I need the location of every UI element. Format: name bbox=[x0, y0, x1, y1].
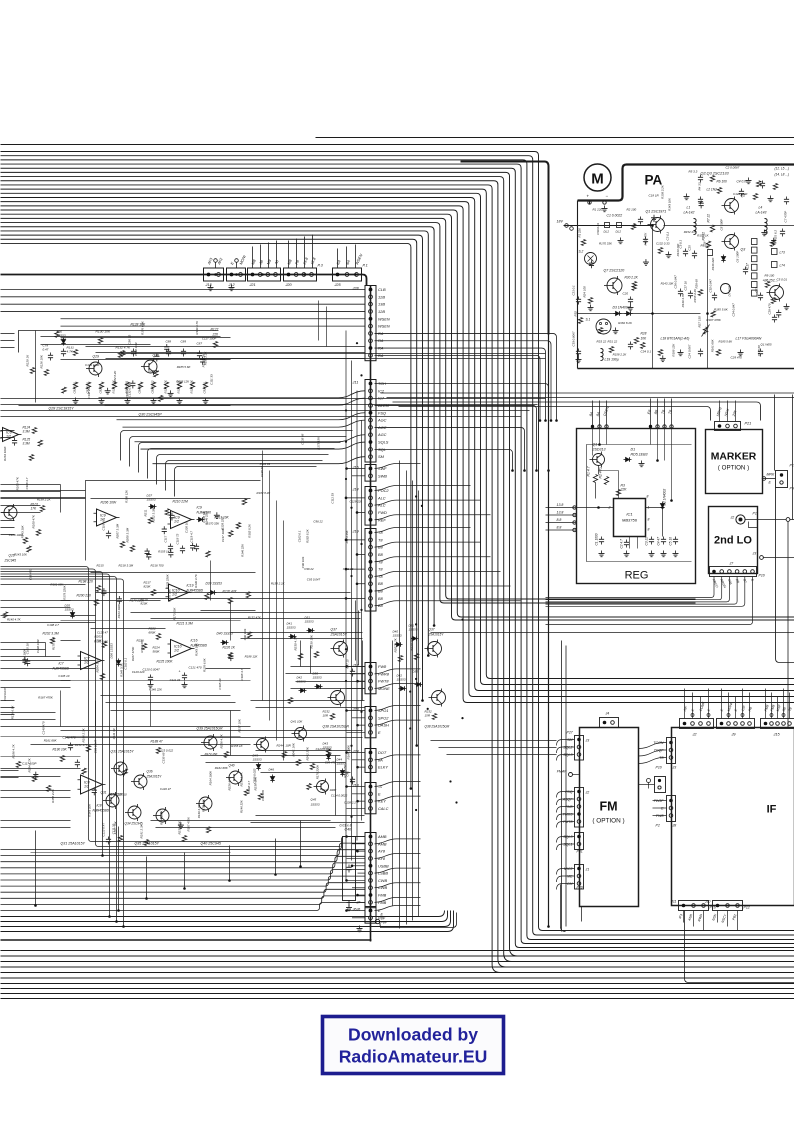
connector J3/P10 bbox=[667, 738, 676, 764]
wire stub bbox=[708, 689, 710, 719]
svg-text:P9: P9 bbox=[790, 487, 794, 491]
svg-text:R143 10K: R143 10K bbox=[676, 242, 680, 256]
wire bus top 18 bbox=[1, 223, 696, 603]
svg-text:WSEN: WSEN bbox=[378, 324, 390, 329]
svg-text:R161 68K: R161 68K bbox=[710, 338, 714, 352]
svg-text:R188 12K: R188 12K bbox=[124, 489, 128, 503]
svg-text:R188 12K: R188 12K bbox=[245, 654, 259, 658]
wire band L3 bbox=[157, 455, 329, 485]
wire stub left bbox=[1, 770, 19, 772]
svg-text:Q33 25A1015Y: Q33 25A1015Y bbox=[111, 750, 135, 754]
svg-text:AY8: AY8 bbox=[377, 849, 386, 854]
wire stub bbox=[268, 243, 270, 269]
svg-text:E: E bbox=[378, 791, 381, 796]
svg-text:R239 10K: R239 10K bbox=[310, 634, 314, 648]
svg-text:Q39 25A1015GR: Q39 25A1015GR bbox=[197, 727, 224, 731]
svg-text:R24 100: R24 100 bbox=[583, 286, 587, 298]
wire link bbox=[111, 710, 241, 712]
resistor bbox=[29, 455, 33, 461]
diode D7 W05 bbox=[721, 284, 731, 294]
wire stub bbox=[347, 687, 366, 689]
wire riser bbox=[392, 641, 394, 906]
wire feed bbox=[375, 348, 546, 420]
resistor bbox=[206, 827, 210, 833]
svg-text:NJM4558D: NJM4558D bbox=[93, 809, 110, 813]
svg-text:( OPTION ): ( OPTION ) bbox=[592, 818, 624, 825]
wire link bbox=[1, 668, 96, 670]
wire stub bbox=[546, 577, 745, 607]
wire bbox=[639, 743, 667, 749]
wire strip feeder bbox=[351, 361, 353, 861]
svg-text:R173 15K: R173 15K bbox=[343, 764, 347, 778]
wire riser bbox=[355, 601, 357, 661]
svg-text:R210 22M: R210 22M bbox=[173, 500, 188, 504]
wire stub left bbox=[1, 484, 61, 486]
svg-text:R164 100K: R164 100K bbox=[117, 603, 121, 619]
junction bbox=[350, 780, 352, 782]
svg-text:R140 4.7K: R140 4.7K bbox=[197, 803, 201, 818]
capacitor bbox=[76, 759, 78, 762]
svg-text:R226 47K: R226 47K bbox=[228, 776, 232, 790]
wire feed bbox=[375, 853, 421, 858]
ground bbox=[348, 905, 350, 908]
svg-text:J23: J23 bbox=[352, 708, 360, 712]
svg-text:R4 33: R4 33 bbox=[698, 182, 702, 190]
wire PA inner rail bbox=[577, 201, 579, 369]
svg-text:R176 6.8K: R176 6.8K bbox=[10, 704, 14, 719]
wire cluster link bbox=[91, 572, 256, 574]
svg-text:C135 68: C135 68 bbox=[260, 466, 264, 477]
ground bbox=[645, 259, 647, 262]
connector J3 FM bbox=[575, 736, 584, 761]
svg-text:1SS53: 1SS53 bbox=[313, 676, 322, 680]
svg-text:C111 33: C111 33 bbox=[343, 567, 354, 571]
ground bbox=[578, 357, 580, 360]
svg-text:R211: R211 bbox=[144, 509, 148, 516]
wire stub bbox=[546, 577, 753, 625]
capacitor C40 0.01x8 bbox=[343, 837, 356, 901]
resistor bbox=[120, 350, 124, 356]
svg-text:C105 10: C105 10 bbox=[58, 674, 69, 678]
svg-text:1SS53: 1SS53 bbox=[397, 678, 406, 682]
svg-text:R198 220: R198 220 bbox=[79, 580, 93, 584]
wire bottom bus 3 bbox=[1, 961, 794, 963]
svg-text:Q31 25A1015Y: Q31 25A1015Y bbox=[61, 842, 86, 846]
svg-text:15R: 15R bbox=[425, 714, 431, 718]
svg-text:R158 2.2K: R158 2.2K bbox=[204, 350, 208, 365]
connector J7 bbox=[710, 567, 757, 577]
wire cluster riser bbox=[318, 301, 320, 341]
svg-text:C111 33: C111 33 bbox=[170, 678, 181, 682]
transistor Q37 2SA1015Y bbox=[334, 642, 348, 656]
wire link bbox=[106, 702, 236, 704]
wire 18V rail bbox=[564, 225, 653, 227]
svg-text:P.1: P.1 bbox=[363, 264, 368, 268]
ground bbox=[630, 305, 632, 308]
svg-text:R134 4.7K: R134 4.7K bbox=[164, 380, 168, 393]
wire bbox=[639, 758, 667, 764]
svg-text:J2: J2 bbox=[692, 733, 698, 737]
svg-text:IF: IF bbox=[767, 804, 777, 816]
wire link bbox=[156, 827, 336, 829]
wire REG left pin bbox=[546, 529, 577, 531]
svg-text:IC16: IC16 bbox=[191, 639, 198, 643]
wire REG top stub bbox=[657, 399, 659, 429]
svg-text:1SS53: 1SS53 bbox=[305, 620, 314, 624]
connector J6 bbox=[365, 907, 376, 924]
ground bbox=[107, 388, 109, 391]
op-amp IC8 bbox=[81, 775, 103, 794]
wire P8F out bbox=[380, 913, 457, 928]
svg-text:R9 100: R9 100 bbox=[765, 274, 775, 278]
junction bbox=[360, 543, 362, 545]
svg-text:L17 F3GA090AN: L17 F3GA090AN bbox=[736, 337, 762, 341]
wire bottom-left bus 9 bbox=[1, 889, 366, 898]
svg-text:C135 68: C135 68 bbox=[162, 752, 166, 763]
wire feed bbox=[375, 897, 421, 902]
wire link bbox=[61, 730, 363, 732]
svg-text:R185 5.6K: R185 5.6K bbox=[94, 640, 109, 644]
wire stub bbox=[700, 697, 702, 719]
svg-text:Q31: Q31 bbox=[101, 791, 107, 795]
wire bbox=[557, 844, 575, 850]
transistor Q1 2SD313 bbox=[593, 454, 605, 466]
svg-text:CM: CM bbox=[567, 882, 573, 886]
connector J11/P16 bbox=[679, 901, 709, 911]
svg-text:R182 8.2K: R182 8.2K bbox=[618, 321, 633, 325]
connector J10/P12 bbox=[713, 901, 743, 911]
wire stub bbox=[347, 836, 366, 838]
wire REG top stub bbox=[671, 399, 673, 429]
svg-text:C129 220: C129 220 bbox=[220, 517, 224, 530]
wire lower mid bus 1 bbox=[1, 911, 445, 917]
wire stub bbox=[358, 800, 366, 802]
ground bbox=[75, 398, 77, 401]
wire band SM bbox=[96, 352, 365, 354]
wire cluster link bbox=[1, 768, 81, 770]
wire stub bbox=[742, 689, 744, 719]
resistor bbox=[242, 499, 246, 505]
wire stub bbox=[783, 689, 785, 719]
connector J20 bbox=[284, 268, 317, 281]
svg-text:R208 3.3M: R208 3.3M bbox=[126, 527, 130, 542]
wire stub bbox=[347, 468, 366, 470]
capacitor bbox=[192, 543, 194, 546]
wire cluster riser bbox=[276, 501, 278, 741]
svg-text:D3 1N4002: D3 1N4002 bbox=[613, 306, 630, 310]
svg-text:R129 1K: R129 1K bbox=[26, 354, 30, 367]
svg-text:R229 10K: R229 10K bbox=[410, 636, 414, 650]
svg-text:3.3M: 3.3M bbox=[23, 430, 30, 434]
connector J8/P2 bbox=[667, 796, 676, 822]
wire FM bottom drop bbox=[561, 885, 566, 932]
svg-text:E: E bbox=[378, 730, 381, 735]
wire stub bbox=[721, 689, 723, 719]
svg-text:R167 470K: R167 470K bbox=[706, 318, 722, 322]
capacitor bbox=[132, 380, 134, 383]
svg-text:AMB: AMB bbox=[377, 834, 387, 839]
svg-text:R6 100: R6 100 bbox=[717, 180, 728, 184]
wire stub bbox=[692, 693, 694, 719]
junction bbox=[421, 505, 423, 507]
svg-text:R143 10K: R143 10K bbox=[14, 553, 28, 557]
wire stub left bbox=[1, 687, 71, 689]
wire drop bbox=[300, 821, 302, 867]
svg-text:R215: R215 bbox=[97, 564, 105, 568]
wire stub bbox=[683, 911, 685, 923]
svg-text:MB3756: MB3756 bbox=[622, 518, 638, 523]
svg-text:C120 0.0047: C120 0.0047 bbox=[143, 668, 161, 672]
wire feed bbox=[346, 597, 365, 599]
wire band L2 bbox=[1, 404, 538, 406]
wire feed bbox=[375, 868, 421, 873]
svg-text:Q45: Q45 bbox=[311, 798, 317, 802]
svg-text:D46: D46 bbox=[269, 768, 275, 772]
svg-text:R170 33K: R170 33K bbox=[168, 588, 172, 602]
capacitor bbox=[27, 658, 29, 661]
wire feed bbox=[1, 296, 366, 298]
wire band L3 bbox=[175, 467, 317, 497]
svg-text:B8: B8 bbox=[378, 581, 384, 586]
wire stub left bbox=[1, 797, 71, 799]
svg-text:C123 0.022: C123 0.022 bbox=[253, 768, 257, 783]
svg-text:C102 0.1: C102 0.1 bbox=[123, 657, 127, 669]
wire stub bbox=[727, 911, 729, 927]
connector J23 bbox=[365, 707, 376, 738]
svg-text:Q40 25C945: Q40 25C945 bbox=[201, 842, 221, 846]
resistor cluster A bbox=[151, 382, 155, 389]
wire feed bbox=[61, 318, 366, 320]
wire feed bbox=[99, 391, 366, 398]
svg-text:R182 8.2K: R182 8.2K bbox=[306, 528, 310, 543]
wire top rail 1 bbox=[316, 137, 794, 139]
ground bbox=[101, 398, 103, 401]
svg-text:−: − bbox=[606, 194, 609, 199]
svg-text:R179 220K: R179 220K bbox=[165, 573, 169, 589]
resistor PA extra bbox=[770, 196, 772, 199]
wire stub left bbox=[1, 505, 41, 507]
capacitor bbox=[35, 772, 37, 775]
resistor cluster A bbox=[190, 382, 194, 389]
svg-text:R146 22K: R146 22K bbox=[240, 543, 244, 557]
ground bbox=[662, 355, 664, 358]
wire feed bbox=[1, 289, 366, 291]
svg-text:L2 1N2: L2 1N2 bbox=[707, 188, 718, 192]
wire bottom bus 7 bbox=[1, 983, 794, 985]
wire feed bbox=[375, 669, 421, 674]
transistor Q7 2SC2120 bbox=[607, 278, 622, 293]
transistor Q44 bbox=[257, 739, 269, 751]
svg-text:C3 (L): C3 (L) bbox=[666, 232, 670, 240]
wire stub bbox=[352, 887, 365, 889]
op-amp IC6 bbox=[3, 428, 19, 442]
svg-text:R152 47K: R152 47K bbox=[644, 232, 648, 246]
op-amp IC9 b bbox=[171, 511, 192, 529]
svg-text:Q30 2SC945P: Q30 2SC945P bbox=[139, 413, 163, 417]
svg-text:C85 0.022: C85 0.022 bbox=[151, 380, 155, 393]
wire REG left pin bbox=[546, 522, 577, 524]
wire feed bbox=[375, 796, 421, 801]
svg-text:DOT: DOT bbox=[378, 750, 387, 755]
svg-text:FMB: FMB bbox=[378, 893, 387, 898]
wire bus top 3 bbox=[1, 160, 794, 940]
ground bbox=[653, 215, 655, 218]
wire bbox=[557, 799, 575, 805]
wire bottom-left bus 4 bbox=[1, 856, 366, 868]
wire strip feeder bbox=[345, 331, 347, 881]
svg-text:3.3M: 3.3M bbox=[23, 442, 30, 446]
transistor Q30 bbox=[144, 360, 157, 373]
transistor Q32 bbox=[199, 797, 212, 810]
wire stub left bbox=[1, 607, 71, 609]
wire cluster riser bbox=[283, 521, 285, 761]
svg-text:C6 100P: C6 100P bbox=[736, 251, 740, 263]
capacitor C47 bbox=[352, 669, 354, 672]
wire bottom-left bus 1 bbox=[1, 837, 366, 850]
wire riser bbox=[399, 461, 401, 929]
wire edge stub bbox=[1, 430, 15, 432]
wire feed bbox=[375, 906, 421, 911]
wire stub bbox=[260, 245, 262, 269]
ground bbox=[205, 398, 207, 401]
wire feed bbox=[357, 553, 365, 555]
svg-text:C5 10: C5 10 bbox=[669, 537, 673, 546]
svg-text:L19 190µ: L19 190µ bbox=[605, 358, 619, 362]
wire bbox=[557, 822, 575, 828]
wire stub left bbox=[1, 790, 71, 792]
wire link bbox=[201, 755, 341, 757]
capacitor PA extra bbox=[762, 181, 764, 184]
svg-text:C132 0.33: C132 0.33 bbox=[127, 384, 131, 398]
capacitor PA extra bbox=[740, 350, 742, 353]
wire bbox=[653, 807, 667, 809]
svg-text:Q35 25A1015Y: Q35 25A1015Y bbox=[135, 842, 160, 846]
svg-text:J1: J1 bbox=[585, 868, 590, 872]
ground bbox=[604, 206, 606, 209]
wire riser bbox=[362, 641, 364, 701]
capacitor bbox=[700, 200, 702, 203]
svg-text:L74: L74 bbox=[780, 264, 786, 268]
svg-text:Q1 2SC1971: Q1 2SC1971 bbox=[646, 210, 667, 214]
svg-text:R1 4.7: R1 4.7 bbox=[587, 466, 591, 476]
wire FM bottom drop 2 bbox=[581, 907, 583, 922]
wire bus top 7 bbox=[1, 177, 794, 962]
wire stub bbox=[546, 577, 730, 602]
svg-text:13.8: 13.8 bbox=[557, 503, 564, 507]
block 2nd LO bbox=[709, 507, 758, 574]
svg-text:R146 22K: R146 22K bbox=[149, 687, 163, 691]
wire edge stub bbox=[1, 534, 15, 536]
svg-text:L4: L4 bbox=[759, 206, 763, 210]
svg-text:560K: 560K bbox=[153, 650, 161, 654]
svg-text:R212 3.3M: R212 3.3M bbox=[152, 507, 156, 522]
svg-text:J16: J16 bbox=[352, 466, 360, 470]
wire bottom-left bus 5 bbox=[1, 863, 366, 874]
capacitor bbox=[146, 548, 148, 551]
wire bbox=[653, 815, 667, 817]
wire bbox=[653, 800, 667, 802]
svg-text:FW3F: FW3F bbox=[654, 799, 665, 803]
svg-text:R1 220: R1 220 bbox=[578, 228, 582, 238]
wire feed bbox=[375, 706, 421, 711]
resistor PA extra bbox=[760, 349, 762, 352]
svg-text:8.8: 8.8 bbox=[557, 518, 562, 522]
svg-text:820K: 820K bbox=[144, 585, 152, 589]
svg-text:R143 10K: R143 10K bbox=[21, 524, 25, 538]
svg-text:C24 0.067: C24 0.067 bbox=[688, 344, 692, 358]
wire main supply rail bbox=[1, 275, 367, 286]
capacitor C46 bbox=[352, 777, 354, 780]
svg-text:R158 2.2K: R158 2.2K bbox=[613, 353, 628, 357]
wire bus top 19 bbox=[1, 227, 435, 626]
wire stub bbox=[749, 693, 751, 719]
resistor bbox=[38, 440, 42, 446]
svg-text:C102 0.1: C102 0.1 bbox=[298, 530, 302, 542]
wire left rail bbox=[1, 577, 117, 922]
wire REG inner loop bbox=[587, 445, 692, 562]
ground bbox=[763, 230, 765, 233]
svg-text:C33 0.0067: C33 0.0067 bbox=[572, 331, 576, 346]
svg-text:MARKER: MARKER bbox=[711, 452, 757, 463]
resistor bbox=[154, 371, 158, 377]
svg-text:C24 0.047: C24 0.047 bbox=[732, 303, 736, 317]
wire right edge riser bbox=[774, 395, 776, 471]
resistor bbox=[307, 783, 311, 789]
wire drop bbox=[118, 827, 120, 911]
wire cluster link bbox=[256, 750, 351, 752]
svg-text:C90 0.01: C90 0.01 bbox=[301, 556, 305, 568]
wire strip main rail bbox=[370, 286, 372, 942]
op-amp IC9 1/2 bbox=[97, 509, 117, 526]
wire edge stub bbox=[1, 714, 15, 716]
svg-text:R182 8.2K: R182 8.2K bbox=[257, 491, 272, 495]
wire bottom-left bus 8 bbox=[1, 883, 366, 893]
wire bus top 1 bbox=[1, 152, 794, 931]
svg-text:R158 2.2K: R158 2.2K bbox=[693, 288, 697, 303]
svg-text:C26 0.047: C26 0.047 bbox=[674, 275, 678, 289]
svg-text:R132 4.7K: R132 4.7K bbox=[116, 346, 132, 350]
svg-text:R140 4.7K: R140 4.7K bbox=[195, 320, 199, 335]
wire bus top 22 bbox=[1, 239, 417, 745]
svg-text:P.3: P.3 bbox=[318, 264, 324, 268]
svg-text:R226 4.7K: R226 4.7K bbox=[220, 733, 224, 748]
svg-text:R164 100K: R164 100K bbox=[23, 648, 27, 664]
junction bbox=[345, 680, 347, 682]
transistor Q27 bbox=[4, 506, 17, 519]
wire cluster riser bbox=[150, 691, 152, 727]
svg-text:2SC945: 2SC945 bbox=[4, 559, 17, 563]
wire rail 548 continuation bbox=[548, 335, 550, 926]
wire bbox=[557, 869, 575, 875]
svg-text:C111 33: C111 33 bbox=[260, 462, 271, 466]
junction bbox=[350, 816, 352, 818]
wire stub bbox=[737, 911, 739, 931]
wire band L3 bbox=[166, 461, 323, 491]
wire link bbox=[291, 688, 365, 690]
wire feed bbox=[375, 782, 421, 787]
wire riser bbox=[406, 471, 408, 925]
wire feed bbox=[375, 449, 513, 470]
svg-text:J9: J9 bbox=[731, 733, 737, 737]
svg-text:MRK: MRK bbox=[767, 473, 775, 477]
svg-text:C123 0.022: C123 0.022 bbox=[158, 748, 173, 752]
wire cluster A frame bbox=[19, 331, 219, 353]
wire feed bbox=[375, 341, 552, 421]
svg-text:C7 470P: C7 470P bbox=[784, 211, 788, 223]
wire bus top 16 bbox=[1, 214, 794, 620]
wire stub bbox=[728, 693, 730, 719]
svg-text:SPO2: SPO2 bbox=[378, 715, 389, 720]
